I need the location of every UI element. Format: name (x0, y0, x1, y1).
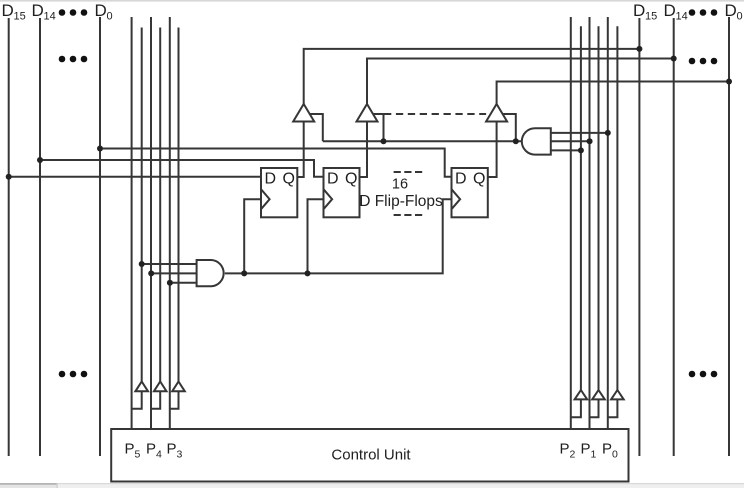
wire clock branch up to FF2 clock (308, 199, 324, 273)
svg-text:D Flip-Flops: D Flip-Flops (359, 193, 443, 210)
svg-text:0: 0 (612, 449, 618, 461)
wire D15 tap to FF1 D input (9, 176, 261, 178)
svg-text:Q: Q (345, 171, 357, 188)
wire G1 input 2 from P4 line (151, 272, 196, 274)
svg-text:D: D (455, 171, 467, 188)
svg-text:D: D (327, 171, 339, 188)
svg-text:P: P (560, 441, 570, 458)
flip-flop FF1 box (261, 168, 297, 217)
pin label P0 (602, 441, 618, 461)
ellipsis dots left second row (59, 56, 88, 63)
wire U3 enable jog to enable net (503, 114, 516, 141)
bottom-left gray tab top edge (0, 483, 57, 485)
wire P1 vertical (589, 17, 591, 437)
svg-text:D: D (32, 1, 44, 20)
tri-state buffer U1 (over flip-flop 1) (293, 104, 314, 122)
node D15 left tap junction (6, 174, 12, 180)
flip-flop FF16 box (452, 168, 488, 217)
wire D0 left vertical (99, 17, 101, 456)
pin label P4 (146, 441, 162, 461)
node D14 right junction (671, 56, 677, 62)
wire stem of P0 buffer to P0 line (608, 399, 618, 417)
node G2 input1 junction (605, 130, 611, 136)
ellipsis dots left bottom row (59, 371, 88, 378)
node clock branch FF2 junction (305, 270, 311, 276)
bus label D0 left (95, 1, 113, 23)
svg-text:D: D (95, 1, 107, 20)
node D15 right junction (636, 46, 642, 52)
bottom-left gray tab (0, 483, 57, 488)
node G1 input2 junction (148, 270, 154, 276)
svg-text:D: D (633, 1, 645, 20)
wire stem of P5 buffer to P5 line (132, 391, 142, 409)
svg-text:0: 0 (107, 11, 113, 23)
wire buffer output line above P4 buffer (159, 28, 161, 382)
ellipsis dots left top row (59, 9, 88, 16)
node D0 left tap junction (97, 146, 103, 152)
buffer triangle on P0 control line (611, 390, 624, 399)
svg-text:14: 14 (676, 11, 688, 23)
svg-text:D: D (725, 1, 737, 20)
wire G2 input 3 from P2 buffer line (551, 149, 581, 151)
wire G1 input 1 from buffer line of P5 (142, 263, 197, 265)
svg-text:P: P (602, 441, 612, 458)
wire U2 output up and right to D14 right bus (367, 59, 674, 105)
wire buffer output line above P0 buffer (616, 26, 618, 390)
dashes above 16 label (394, 171, 423, 173)
svg-text:D: D (265, 171, 277, 188)
bottom tab divider tick (57, 483, 58, 488)
svg-text:Q: Q (283, 171, 295, 188)
bottom gray strip (0, 484, 744, 488)
ellipsis dots right second row (689, 58, 718, 65)
wire P5 vertical (131, 17, 133, 437)
wire buffer output line above P5 buffer (141, 28, 143, 382)
node D0 right junction (726, 79, 732, 85)
svg-text:16: 16 (392, 177, 408, 193)
wire FF2 Q output up to U2 (360, 122, 368, 178)
pin label P1 (581, 441, 597, 461)
svg-text:15: 15 (14, 11, 26, 23)
wire buffer output line above P1 buffer (598, 26, 600, 390)
and gate G2 (output enable, faces left) (522, 128, 551, 154)
tri-state buffer U2 (over flip-flop 2) (357, 104, 378, 122)
svg-text:D: D (2, 1, 14, 20)
svg-text:P: P (146, 441, 156, 458)
wire U1 enable jog to enable net (310, 114, 323, 141)
svg-text:Control Unit: Control Unit (331, 447, 411, 464)
node clock branch FF1 junction (241, 270, 247, 276)
node G2 input2 junction (587, 138, 593, 144)
bus label D0 right (725, 1, 743, 23)
svg-text:Q: Q (473, 171, 485, 188)
buffer triangle on P4 control line (154, 382, 167, 392)
wire stem of P2 buffer to P2 line (571, 399, 581, 417)
bottom strip divider line (0, 483, 744, 484)
flip-flop FF2 clock wedge (324, 189, 333, 209)
buffer triangle on P5 control line (135, 382, 148, 392)
wire FF16 Q output up to U3 (488, 122, 497, 178)
svg-text:P: P (581, 441, 591, 458)
tri-state buffer U3 (over flip-flop 16) (486, 104, 507, 122)
node U2 enable junction (381, 138, 387, 144)
svg-text:1: 1 (591, 449, 597, 461)
svg-text:P: P (125, 441, 135, 458)
node G2 input3 junction (578, 147, 584, 153)
svg-text:3: 3 (177, 449, 183, 461)
svg-text:5: 5 (135, 449, 141, 461)
node D14 left tap junction (37, 157, 43, 163)
wire P2 vertical (570, 17, 572, 437)
wire D14 tap to FF2 D input (40, 160, 324, 177)
control unit box (111, 429, 628, 482)
wire D14 left vertical (39, 18, 41, 456)
wire U2 enable jog to enable net (373, 114, 383, 141)
ellipsis dots right top row (689, 9, 718, 16)
wire G2 input 2 from P1 buffer line (551, 140, 590, 142)
svg-text:P: P (167, 441, 177, 458)
svg-text:4: 4 (156, 449, 162, 461)
label 16 D Flip-Flops (359, 177, 443, 210)
wire stem of P4 buffer to P4 line (151, 391, 160, 409)
wire D15 right vertical (638, 18, 640, 456)
wire U1 output up and right to D15 right bus (304, 49, 640, 104)
bus label D14 left (32, 1, 56, 23)
buffer triangle on P3 control line (172, 382, 185, 392)
pin label P5 (125, 441, 141, 461)
wire P0 vertical (607, 17, 609, 437)
svg-text:2: 2 (570, 449, 576, 461)
flip-flop FF16 clock wedge (452, 189, 461, 209)
svg-text:0: 0 (737, 11, 743, 23)
wire buffer output line above P3 buffer (178, 28, 180, 382)
flip-flop FF2 box (324, 168, 360, 217)
bus label D14 right (664, 1, 688, 23)
wire G1 output clock net to FF16 clock (225, 199, 452, 273)
wire FF1 Q output up to U1 (297, 122, 303, 178)
wire D14 right vertical (673, 18, 675, 456)
wire D15 left vertical (8, 18, 10, 456)
wire D0 right vertical (728, 17, 730, 456)
svg-text:D: D (664, 1, 676, 20)
node G1 input1 junction (139, 261, 145, 267)
wire D0 tap to FF16 D input (100, 149, 452, 177)
wire P4 vertical (150, 17, 152, 437)
wire P3 vertical (169, 17, 171, 437)
pin label P2 (560, 441, 576, 461)
buffer triangle on P2 control line (575, 390, 588, 399)
wire clock branch up to FF1 clock (244, 199, 261, 273)
buffer triangle on P1 control line (592, 390, 605, 399)
wire enable net horizontal from AND gate G2 output (323, 140, 522, 142)
wire U3 output up and right to D0 right bus (497, 82, 729, 105)
wire G1 input 3 from buffer line of P4 (170, 282, 197, 284)
node G1 input3 junction (167, 280, 173, 286)
dashes below flip-flops label (394, 214, 423, 216)
bus label D15 right (633, 1, 657, 23)
flip-flop FF1 clock wedge (261, 189, 270, 209)
and gate G1 (clock gate, faces right) (197, 260, 224, 286)
wire stem of P3 buffer to P3 line (170, 391, 179, 409)
pin label P3 (167, 441, 183, 461)
flip-flop FF16 pin labels D and Q (455, 171, 485, 188)
dashed continuation line between U2 and U3 (384, 113, 486, 115)
svg-text:15: 15 (645, 11, 657, 23)
node U3 enable junction (513, 138, 519, 144)
bus label D15 left (2, 1, 26, 23)
wire buffer output line above P2 buffer (580, 26, 582, 390)
flip-flop FF1 pin labels D and Q (265, 171, 295, 188)
top gray strip (0, 0, 744, 2)
wire G2 input 1 from P0 buffer line (551, 132, 608, 134)
ellipsis dots right bottom row (689, 371, 718, 378)
svg-text:14: 14 (44, 11, 56, 23)
flip-flop FF2 pin labels D and Q (327, 171, 357, 188)
wire stem of P1 buffer to P1 line (590, 399, 599, 417)
